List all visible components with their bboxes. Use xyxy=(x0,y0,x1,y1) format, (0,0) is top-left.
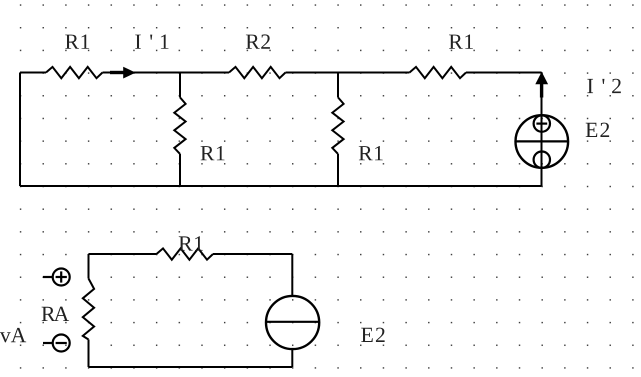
label E2 source top xyxy=(586,123,609,137)
wire left vertical side of top loop xyxy=(19,73,21,187)
source E2 bottom circuit xyxy=(266,296,319,349)
label R1 top-left resistor xyxy=(65,34,89,48)
label R1 first vertical resistor xyxy=(201,146,225,160)
wire bottom loop top side left of R1 xyxy=(89,253,157,255)
terminal minus of vA xyxy=(43,335,70,352)
wire from R1 to R2 through node I'1 xyxy=(103,72,230,74)
resistor R1 top-right horizontal xyxy=(410,67,467,78)
label vA voltage xyxy=(0,328,26,343)
wire from R2 to top-right R1 xyxy=(286,72,410,74)
arrow I'2 current direction xyxy=(535,72,548,98)
resistor R1 top-left horizontal xyxy=(46,67,103,78)
label R2 resistor xyxy=(246,34,270,48)
wire bottom loop right vertical lower stub xyxy=(291,350,293,367)
wire bottom loop right vertical upper stub xyxy=(291,254,293,297)
label I'1 current xyxy=(135,34,168,48)
resistor R1 first vertical xyxy=(174,97,185,153)
terminal plus of vA xyxy=(43,269,70,286)
wire first vertical branch lower stub xyxy=(179,154,181,186)
wire bottom loop bottom side xyxy=(89,366,293,368)
label R1 second vertical resistor xyxy=(359,146,383,160)
label E2 source bottom xyxy=(361,328,384,342)
wire second vertical branch lower stub xyxy=(337,154,339,186)
wire right vertical through source E2 xyxy=(541,73,543,187)
wire second vertical branch upper stub xyxy=(337,73,339,98)
resistor RA xyxy=(83,279,94,340)
label I'2 current xyxy=(587,79,620,93)
source E2 top circuit xyxy=(516,115,569,168)
wire top-left horizontal from corner to R1 xyxy=(20,72,46,74)
wire bottom loop top side right of R1 xyxy=(213,253,292,255)
resistor R1 bottom circuit xyxy=(157,248,214,259)
resistor R2 horizontal xyxy=(229,67,286,78)
label RA resistor xyxy=(42,307,69,321)
wire bottom loop left vertical lower stub xyxy=(88,340,90,368)
wire bottom of top loop xyxy=(20,185,542,187)
label R1 top-right resistor xyxy=(449,34,473,48)
label R1 bottom resistor xyxy=(179,236,203,250)
wire bottom loop left vertical upper stub xyxy=(88,254,90,279)
wire from top-right R1 to right corner xyxy=(466,72,542,74)
resistor R1 second vertical xyxy=(332,97,343,153)
wire first vertical branch upper stub xyxy=(179,73,181,98)
arrow I'1 current direction xyxy=(110,67,136,79)
